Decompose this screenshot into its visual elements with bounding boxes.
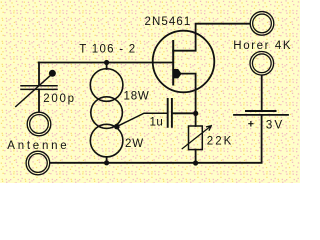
terminal Antenne top (27, 112, 51, 136)
coil L1 top stub (106, 63, 108, 70)
battery B1 long plate (234, 114, 288, 116)
transistor Q1 channel bar (172, 41, 174, 85)
battery B1 short plate (246, 110, 276, 112)
wire pot to bottom rail (195, 150, 197, 163)
wire coil tap to C2 (117, 113, 167, 126)
capacitor C1 arrow (16, 76, 51, 107)
capacitor C1 200p plates (21, 86, 57, 90)
wire gate rail (top) (39, 62, 173, 64)
capacitor C2 1u plates (168, 99, 172, 127)
coil L1 bottom stub (106, 157, 108, 163)
wire bottom rail (51, 115, 262, 163)
svg-text:1u: 1u (150, 116, 164, 128)
svg-text:2W: 2W (125, 138, 144, 150)
svg-text:Horer 4K: Horer 4K (233, 40, 292, 52)
transistor Q1 drain lead (173, 24, 249, 51)
terminal Horer bottom (250, 52, 274, 76)
capacitor C1 arrow dot (49, 70, 56, 77)
svg-text:200p: 200p (43, 93, 75, 105)
potentiometer R1 22K body (189, 126, 203, 150)
svg-text:18W: 18W (124, 91, 150, 103)
wire left column upper (38, 63, 40, 86)
wire C2 to source node (173, 112, 196, 114)
wire Horer to battery (261, 76, 263, 111)
svg-text:2N5461: 2N5461 (145, 16, 192, 28)
wire left column lower (38, 89, 40, 111)
node source/C2/pot junction (193, 111, 198, 116)
coil L1 turn 2 (91, 97, 123, 129)
node coil tap junction (114, 124, 120, 130)
svg-text:3V: 3V (266, 120, 284, 132)
node coil top junction (104, 60, 109, 65)
node pot bottom junction (193, 160, 198, 165)
coil L1 turn 1 (90, 69, 123, 102)
transistor Q1 circle (153, 31, 215, 93)
svg-text:T 106 - 2: T 106 - 2 (79, 44, 136, 56)
svg-text:22K: 22K (207, 135, 233, 147)
coil L1 turn 3 (90, 124, 123, 157)
node coil bottom junction (104, 160, 109, 165)
svg-text:Antenne: Antenne (7, 140, 69, 152)
potentiometer R1 arrow (182, 126, 211, 149)
terminal Horer top (250, 12, 274, 36)
terminal Antenne bottom (26, 151, 50, 175)
transistor Q1 gate arrow (173, 69, 181, 78)
transistor Q1 source lead (181, 74, 196, 126)
battery plus sign (249, 122, 253, 126)
